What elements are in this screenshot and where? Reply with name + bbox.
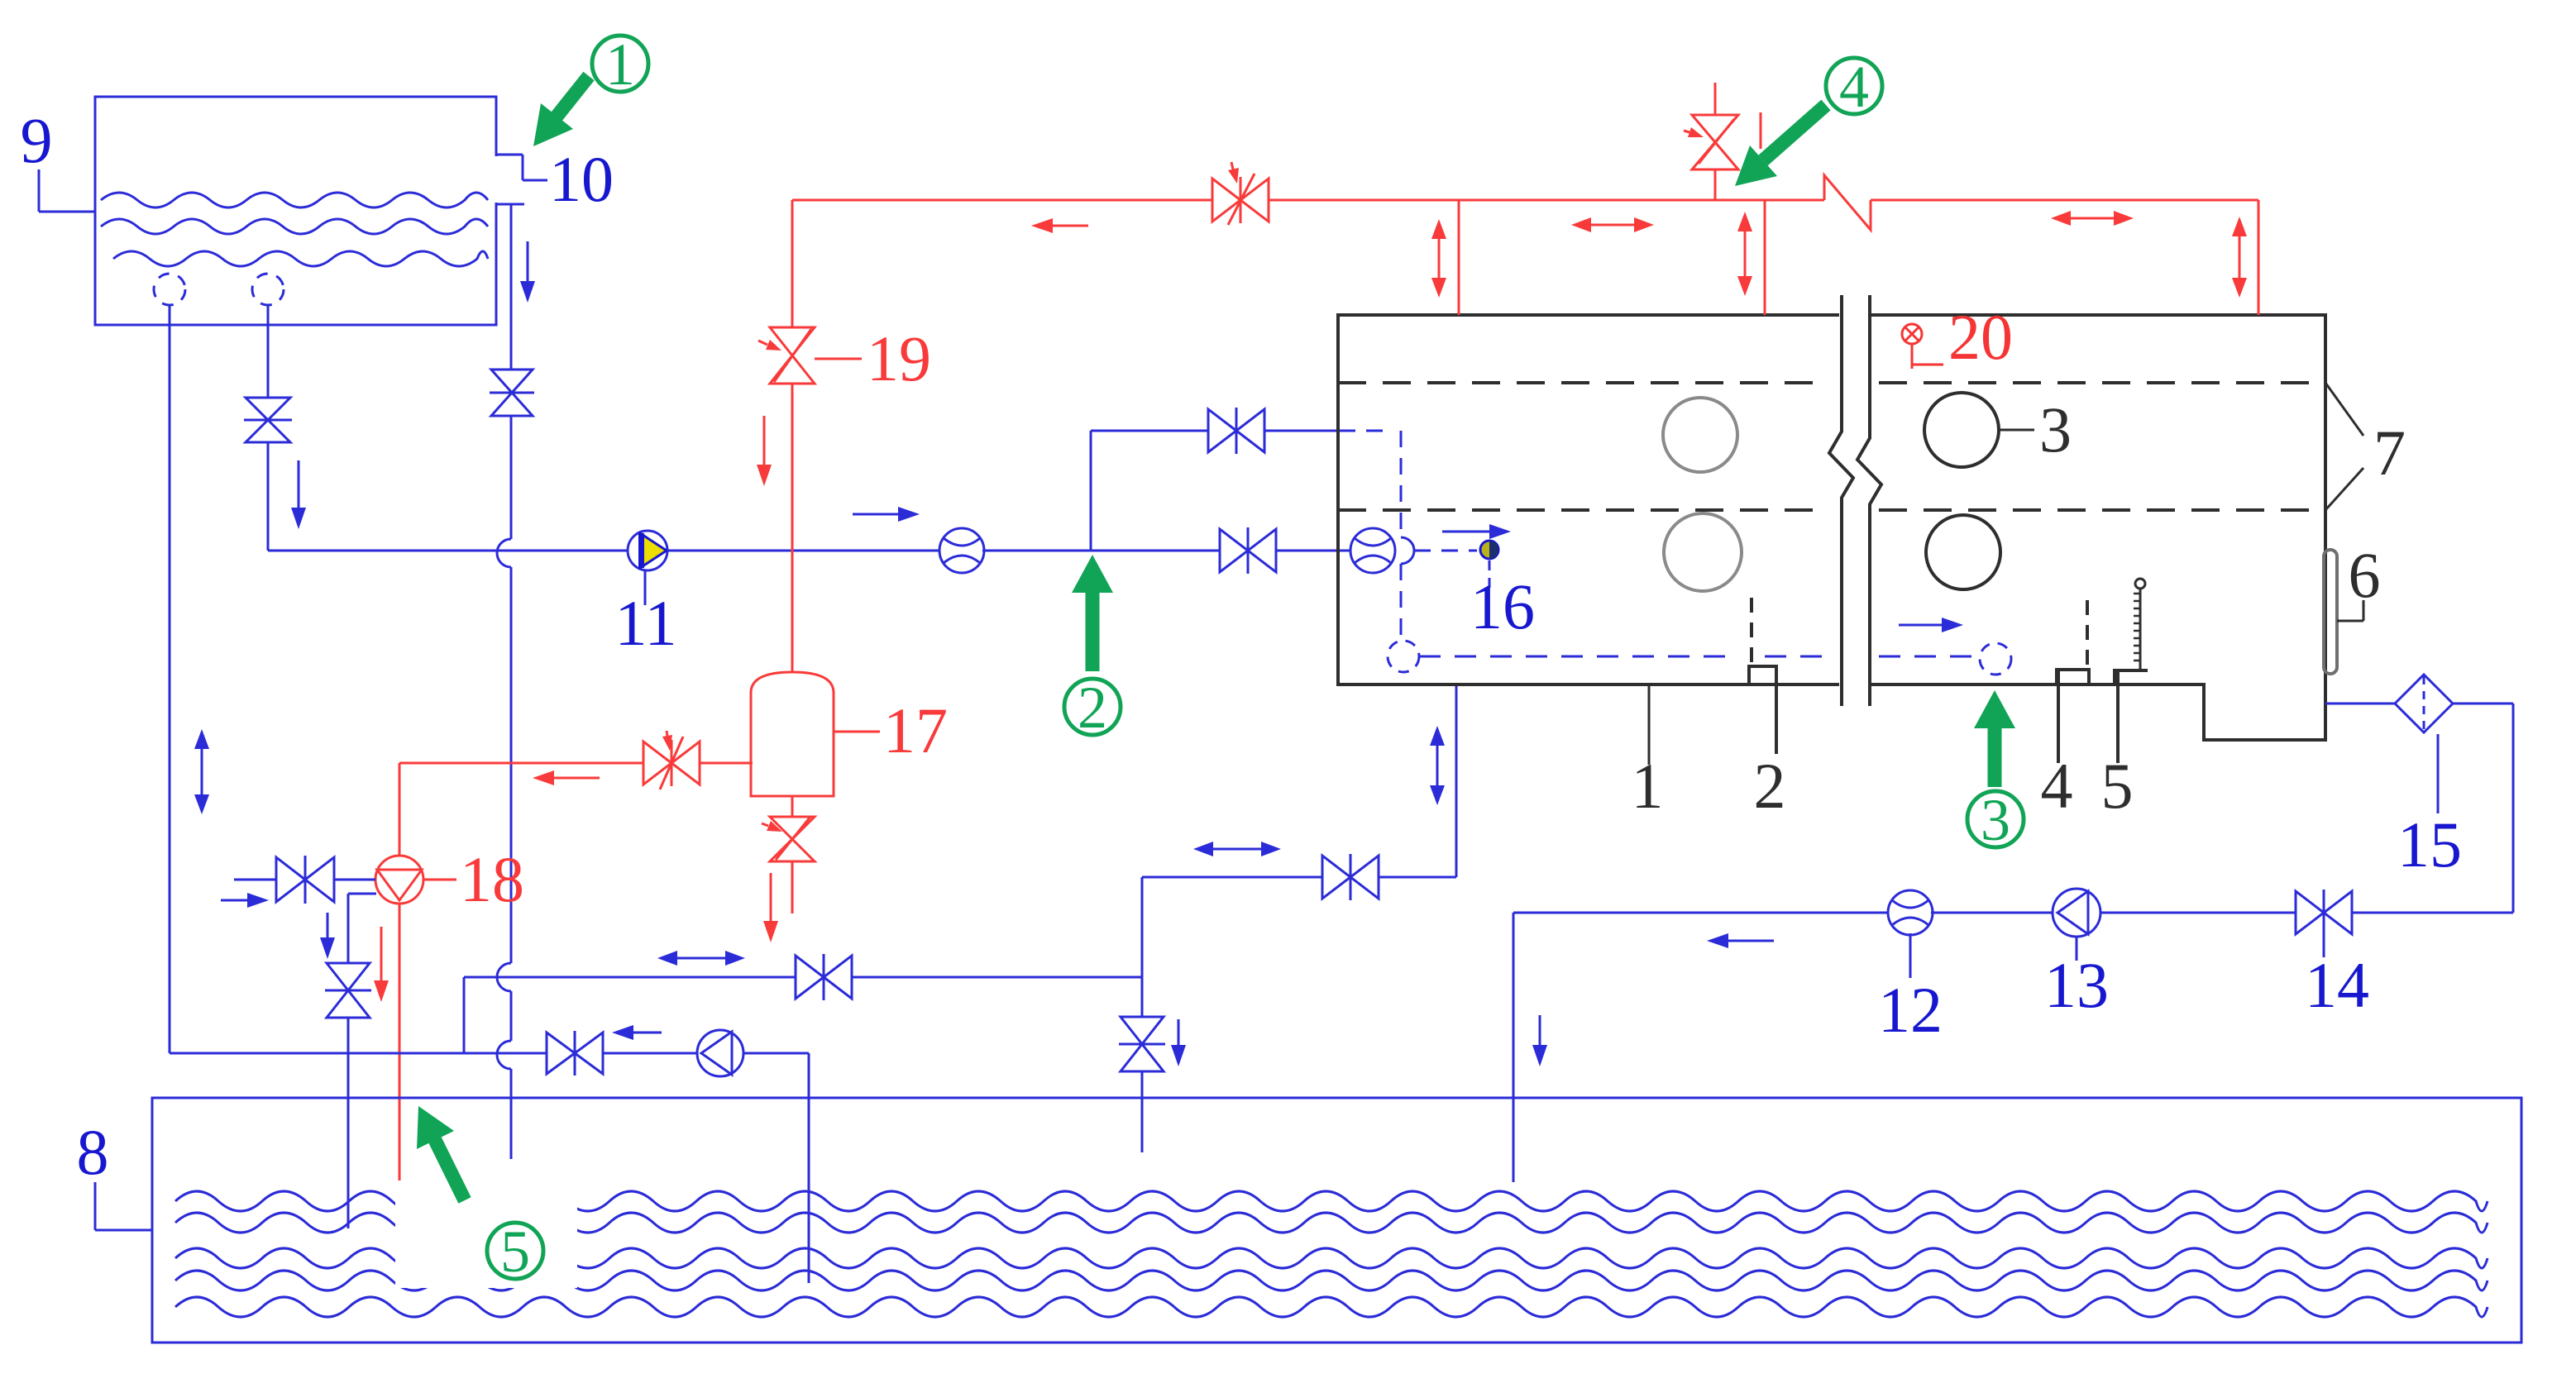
dashed nozzle circle right [1980, 643, 2011, 675]
svg-text:11: 11 [614, 587, 676, 659]
label 11 with tick [644, 570, 647, 605]
gray jet circle upper-left [1663, 398, 1737, 472]
tank 9 outlet nozzle A [154, 274, 185, 305]
label 12 with tick [1909, 933, 1912, 978]
wire suction to evaporator [1276, 550, 1353, 552]
green arrow 3 [1988, 728, 2002, 787]
hop over bypass line [497, 963, 511, 991]
pump on return line [697, 1030, 743, 1076]
valve on bypass [796, 956, 852, 999]
dashed wire inside box top [1339, 430, 1391, 432]
flow arrow down drain B [298, 460, 300, 508]
item 4 dashed probe [2086, 600, 2089, 668]
svg-text:19: 19 [867, 322, 931, 394]
svg-text:20: 20 [1948, 301, 2013, 373]
pool line left corner [1513, 913, 1515, 1182]
svg-text:16: 16 [1470, 570, 1535, 642]
wire branch riser [1090, 431, 1092, 551]
inlet 10 stub [496, 154, 523, 156]
wire drain pipe into pool [510, 1069, 513, 1159]
svg-text:8: 8 [77, 1116, 109, 1188]
return line from drain A [170, 1052, 547, 1055]
svg-text:12: 12 [1878, 974, 1943, 1046]
svg-text:3: 3 [1981, 787, 2010, 853]
dashed water level line 2 [1338, 508, 1829, 512]
svg-text:9: 9 [21, 104, 53, 176]
dashed water level line 1 [1338, 381, 1829, 384]
green circled 5 [487, 1223, 543, 1279]
red flow arrow down 19 [763, 416, 766, 465]
tank 9 outlet nozzle B [252, 274, 284, 305]
red flow arrow drain 17 [770, 873, 772, 921]
wire branch to box [1264, 430, 1339, 432]
valve on branch [1208, 409, 1264, 452]
safety valve top stem [1714, 83, 1717, 115]
red flow arrow pump line [554, 777, 600, 780]
dashed riser inside box [1400, 431, 1403, 537]
valve on return line [547, 1033, 603, 1074]
hop over return line [497, 1041, 511, 1069]
wire drain pipe lower2 [510, 991, 513, 1041]
hp drain upper [1141, 877, 1144, 1017]
svg-text:3: 3 [2039, 394, 2072, 465]
probe dot 16 [1480, 541, 1498, 559]
callout 7 bracket [2325, 383, 2363, 436]
door handle 6 [2324, 550, 2337, 674]
red pump circuit horizontal [399, 762, 643, 765]
item 2 step and callout [1749, 666, 1776, 754]
svg-text:2: 2 [1754, 750, 1786, 822]
wire filter to riser [2453, 703, 2513, 705]
wire y1061 right [1379, 876, 1456, 879]
svg-text:5: 5 [2101, 750, 2134, 822]
red riser to tank 17 [791, 384, 794, 673]
wave gap for marker 5 [395, 1164, 577, 1288]
svg-text:14: 14 [2305, 949, 2369, 1021]
gray jet circle lower-left [1664, 513, 1742, 591]
svg-text:18: 18 [460, 843, 524, 915]
double arrow vertical left [201, 749, 203, 794]
red double arrow v2 [1744, 231, 1747, 276]
safety valve stub [1714, 169, 1717, 200]
red supply main mid [1269, 199, 1824, 202]
tank 9 water waves [101, 193, 488, 207]
red valve on supply main [1212, 179, 1269, 222]
valve on y1061 [1322, 856, 1379, 899]
wire return to pump [603, 1052, 697, 1055]
flow arrow pool drop [1539, 1015, 1541, 1045]
red valve pump line [643, 742, 700, 785]
pool line right [2352, 912, 2513, 914]
wire branch top [1091, 430, 1208, 432]
jet circle 3 upper-right [1924, 393, 1999, 467]
pool line mid [1931, 912, 2053, 914]
red pipe valve to tank17 [700, 762, 753, 765]
flow meter on suction [939, 528, 984, 573]
wire box to filter [2325, 703, 2395, 705]
red double arrow v1 [1438, 239, 1441, 278]
svg-text:1: 1 [605, 31, 635, 98]
wire return pump outlet [743, 1052, 809, 1055]
green circled 3 [1967, 791, 2024, 847]
machine box outline [1338, 315, 2325, 740]
blue branch into pool [347, 1018, 350, 1228]
valve 14 [2296, 891, 2352, 934]
flow arrow right in box [1899, 624, 1942, 627]
red supply main right [1871, 199, 2258, 202]
svg-text:1: 1 [1632, 750, 1664, 822]
label 14 with tick [2323, 935, 2325, 957]
box break line left [1829, 295, 1853, 706]
double arrow on bypass [677, 957, 725, 960]
dashed nozzle circle left [1388, 641, 1419, 672]
item 4 step and callout [2057, 670, 2089, 763]
flow arrow right suction [853, 513, 898, 516]
wire tank9 drain B upper [267, 305, 270, 398]
red pump outlet pipe to pool [399, 904, 401, 1181]
green circled 4 [1826, 58, 1882, 114]
flow meter 12 [1888, 890, 1933, 935]
dashed wire to probe 16 [1414, 550, 1477, 552]
pool line left [1513, 912, 1890, 914]
flow arrow return [633, 1032, 662, 1034]
item 2 dashed probe [1750, 598, 1753, 666]
svg-text:17: 17 [883, 694, 948, 766]
svg-text:7: 7 [2373, 417, 2406, 489]
wire y1061 left [1142, 876, 1322, 879]
red drain valve below 17 [770, 817, 815, 861]
bypass riser from return [463, 977, 466, 1053]
blue feed flow arrow [221, 899, 247, 902]
green arrow 2 [1086, 593, 1100, 671]
label 3 with tick [1999, 429, 2034, 432]
pump 11 symbol [628, 531, 667, 570]
hop arc dashed riser over suction [1401, 537, 1414, 564]
blue branch below pump [348, 893, 376, 895]
pool tank outline [152, 1098, 2521, 1343]
wire suction line mid [667, 550, 941, 552]
svg-text:10: 10 [549, 143, 614, 215]
callout 1 line [1648, 684, 1651, 765]
wire box outlet down [1455, 686, 1458, 877]
blue feed line [234, 879, 276, 881]
svg-text:6: 6 [2349, 539, 2381, 611]
wire return drop in pool [808, 1182, 810, 1283]
label 15 with tick [2437, 734, 2440, 813]
hp drain lower [1141, 1071, 1144, 1152]
flow arrow down blue branch [327, 913, 329, 937]
wire drain pipe lower [510, 567, 513, 963]
pump 13 [2053, 889, 2100, 937]
flow arrow pool line [1728, 940, 1774, 942]
red flow arrow left [1053, 225, 1088, 227]
red double arrow h1 [1591, 224, 1634, 227]
red drop pipe mid [1764, 200, 1766, 315]
red drain pipe below 17 [791, 861, 794, 913]
flow arrow hp drain [1178, 1019, 1180, 1045]
box break line right [1857, 295, 1881, 706]
wire tank9 drain B lower [267, 442, 270, 551]
red pipe break symbol [1824, 175, 1871, 230]
wire tank9 drain A [169, 305, 171, 1053]
tank 9 body [95, 97, 496, 325]
pool line mid2 [2100, 912, 2296, 914]
label 13 with tick [2076, 937, 2078, 961]
safety valve vent stub [1760, 112, 1762, 149]
valve on blue feed [276, 857, 334, 902]
red pump outlet in pool [399, 1164, 401, 1181]
flow arrow right probe [1442, 531, 1489, 533]
wire suction line mid2 [982, 550, 1220, 552]
valve on drain pipe [491, 370, 533, 416]
wire suction line left [268, 550, 628, 552]
red flow arrow pump outlet [380, 927, 383, 980]
dashed distribution pipe in box [1419, 656, 1738, 658]
flow meter at heat pump inlet [1350, 528, 1395, 573]
red drop pipe 2 [2258, 200, 2260, 315]
valve below pump branch [327, 963, 370, 1018]
hop over suction line [497, 539, 511, 567]
item 5 step and callout [2115, 670, 2148, 763]
dashed distribution pipe right part [1879, 656, 1976, 658]
label 19 with tick [815, 358, 862, 360]
valve on hp drain [1121, 1017, 1164, 1071]
red drain below 17 stub [791, 796, 794, 817]
jet circle lower-right [1926, 515, 2000, 589]
pump 18 [375, 856, 423, 904]
red supply main left [792, 199, 1212, 202]
bypass line left [464, 976, 796, 979]
callout 6 [2337, 620, 2363, 622]
svg-text:5: 5 [500, 1219, 530, 1285]
green arrow 5 [435, 1140, 465, 1200]
svg-text:15: 15 [2397, 808, 2462, 880]
svg-text:4: 4 [2041, 750, 2073, 822]
pool water waves [175, 1191, 2488, 1211]
label 17 with tick [834, 731, 880, 733]
red pump riser upper [399, 763, 401, 856]
label 16 with dashed tick [1489, 560, 1491, 589]
double arrow on y1061 [1213, 848, 1261, 851]
valve on suction line [1220, 529, 1276, 572]
green arrow 4 [1763, 105, 1826, 160]
red drop pipe 1 [1458, 200, 1460, 315]
filter 15 diamond [2395, 675, 2453, 732]
valve 19 [770, 327, 815, 384]
green circled 2 [1064, 679, 1121, 735]
pool line riser [2512, 704, 2515, 913]
expansion tank 17 [751, 672, 834, 796]
double arrow vertical box outlet [1436, 746, 1439, 785]
svg-text:13: 13 [2044, 949, 2109, 1021]
green circled 1 [592, 36, 648, 92]
flow arrow down on drain pipe [527, 241, 529, 281]
thermometer 5 [2135, 579, 2145, 589]
red double arrow v3 [2239, 236, 2241, 278]
safety valve 4 [1692, 115, 1738, 169]
green arrow 1 [557, 76, 589, 117]
wire drain pipe mid [510, 416, 513, 539]
label 18 with tick [423, 879, 456, 881]
svg-text:4: 4 [1839, 54, 1869, 120]
wire drain pipe from 10 upper [510, 204, 513, 370]
red lamp symbol 20 [1902, 324, 1922, 344]
bypass line right [852, 976, 1142, 979]
red double arrow h2 [2071, 217, 2114, 220]
svg-text:2: 2 [1078, 675, 1107, 741]
valve on drain B [246, 398, 290, 442]
red riser from top main [791, 200, 794, 327]
wire return drop to pool [808, 1053, 810, 1283]
